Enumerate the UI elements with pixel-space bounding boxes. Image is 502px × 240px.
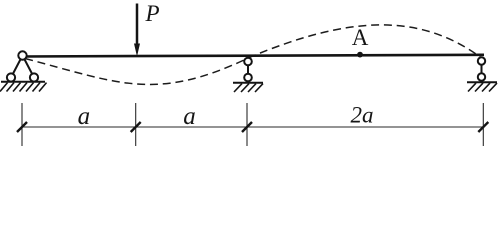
svg-text:A: A	[352, 25, 369, 50]
svg-text:a: a	[78, 103, 91, 130]
svg-text:2a: 2a	[351, 103, 374, 128]
svg-text:a: a	[183, 103, 196, 130]
svg-text:P: P	[145, 1, 160, 26]
